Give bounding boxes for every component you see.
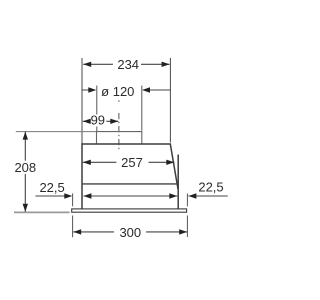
svg-text:ø 120: ø 120 [101, 84, 134, 99]
svg-text:300: 300 [119, 225, 141, 240]
svg-text:208: 208 [14, 160, 36, 175]
svg-text:234: 234 [117, 57, 139, 72]
svg-text:22,5: 22,5 [39, 180, 64, 195]
svg-text:22,5: 22,5 [198, 180, 223, 195]
svg-text:257: 257 [121, 155, 143, 170]
svg-text:99: 99 [91, 113, 105, 128]
